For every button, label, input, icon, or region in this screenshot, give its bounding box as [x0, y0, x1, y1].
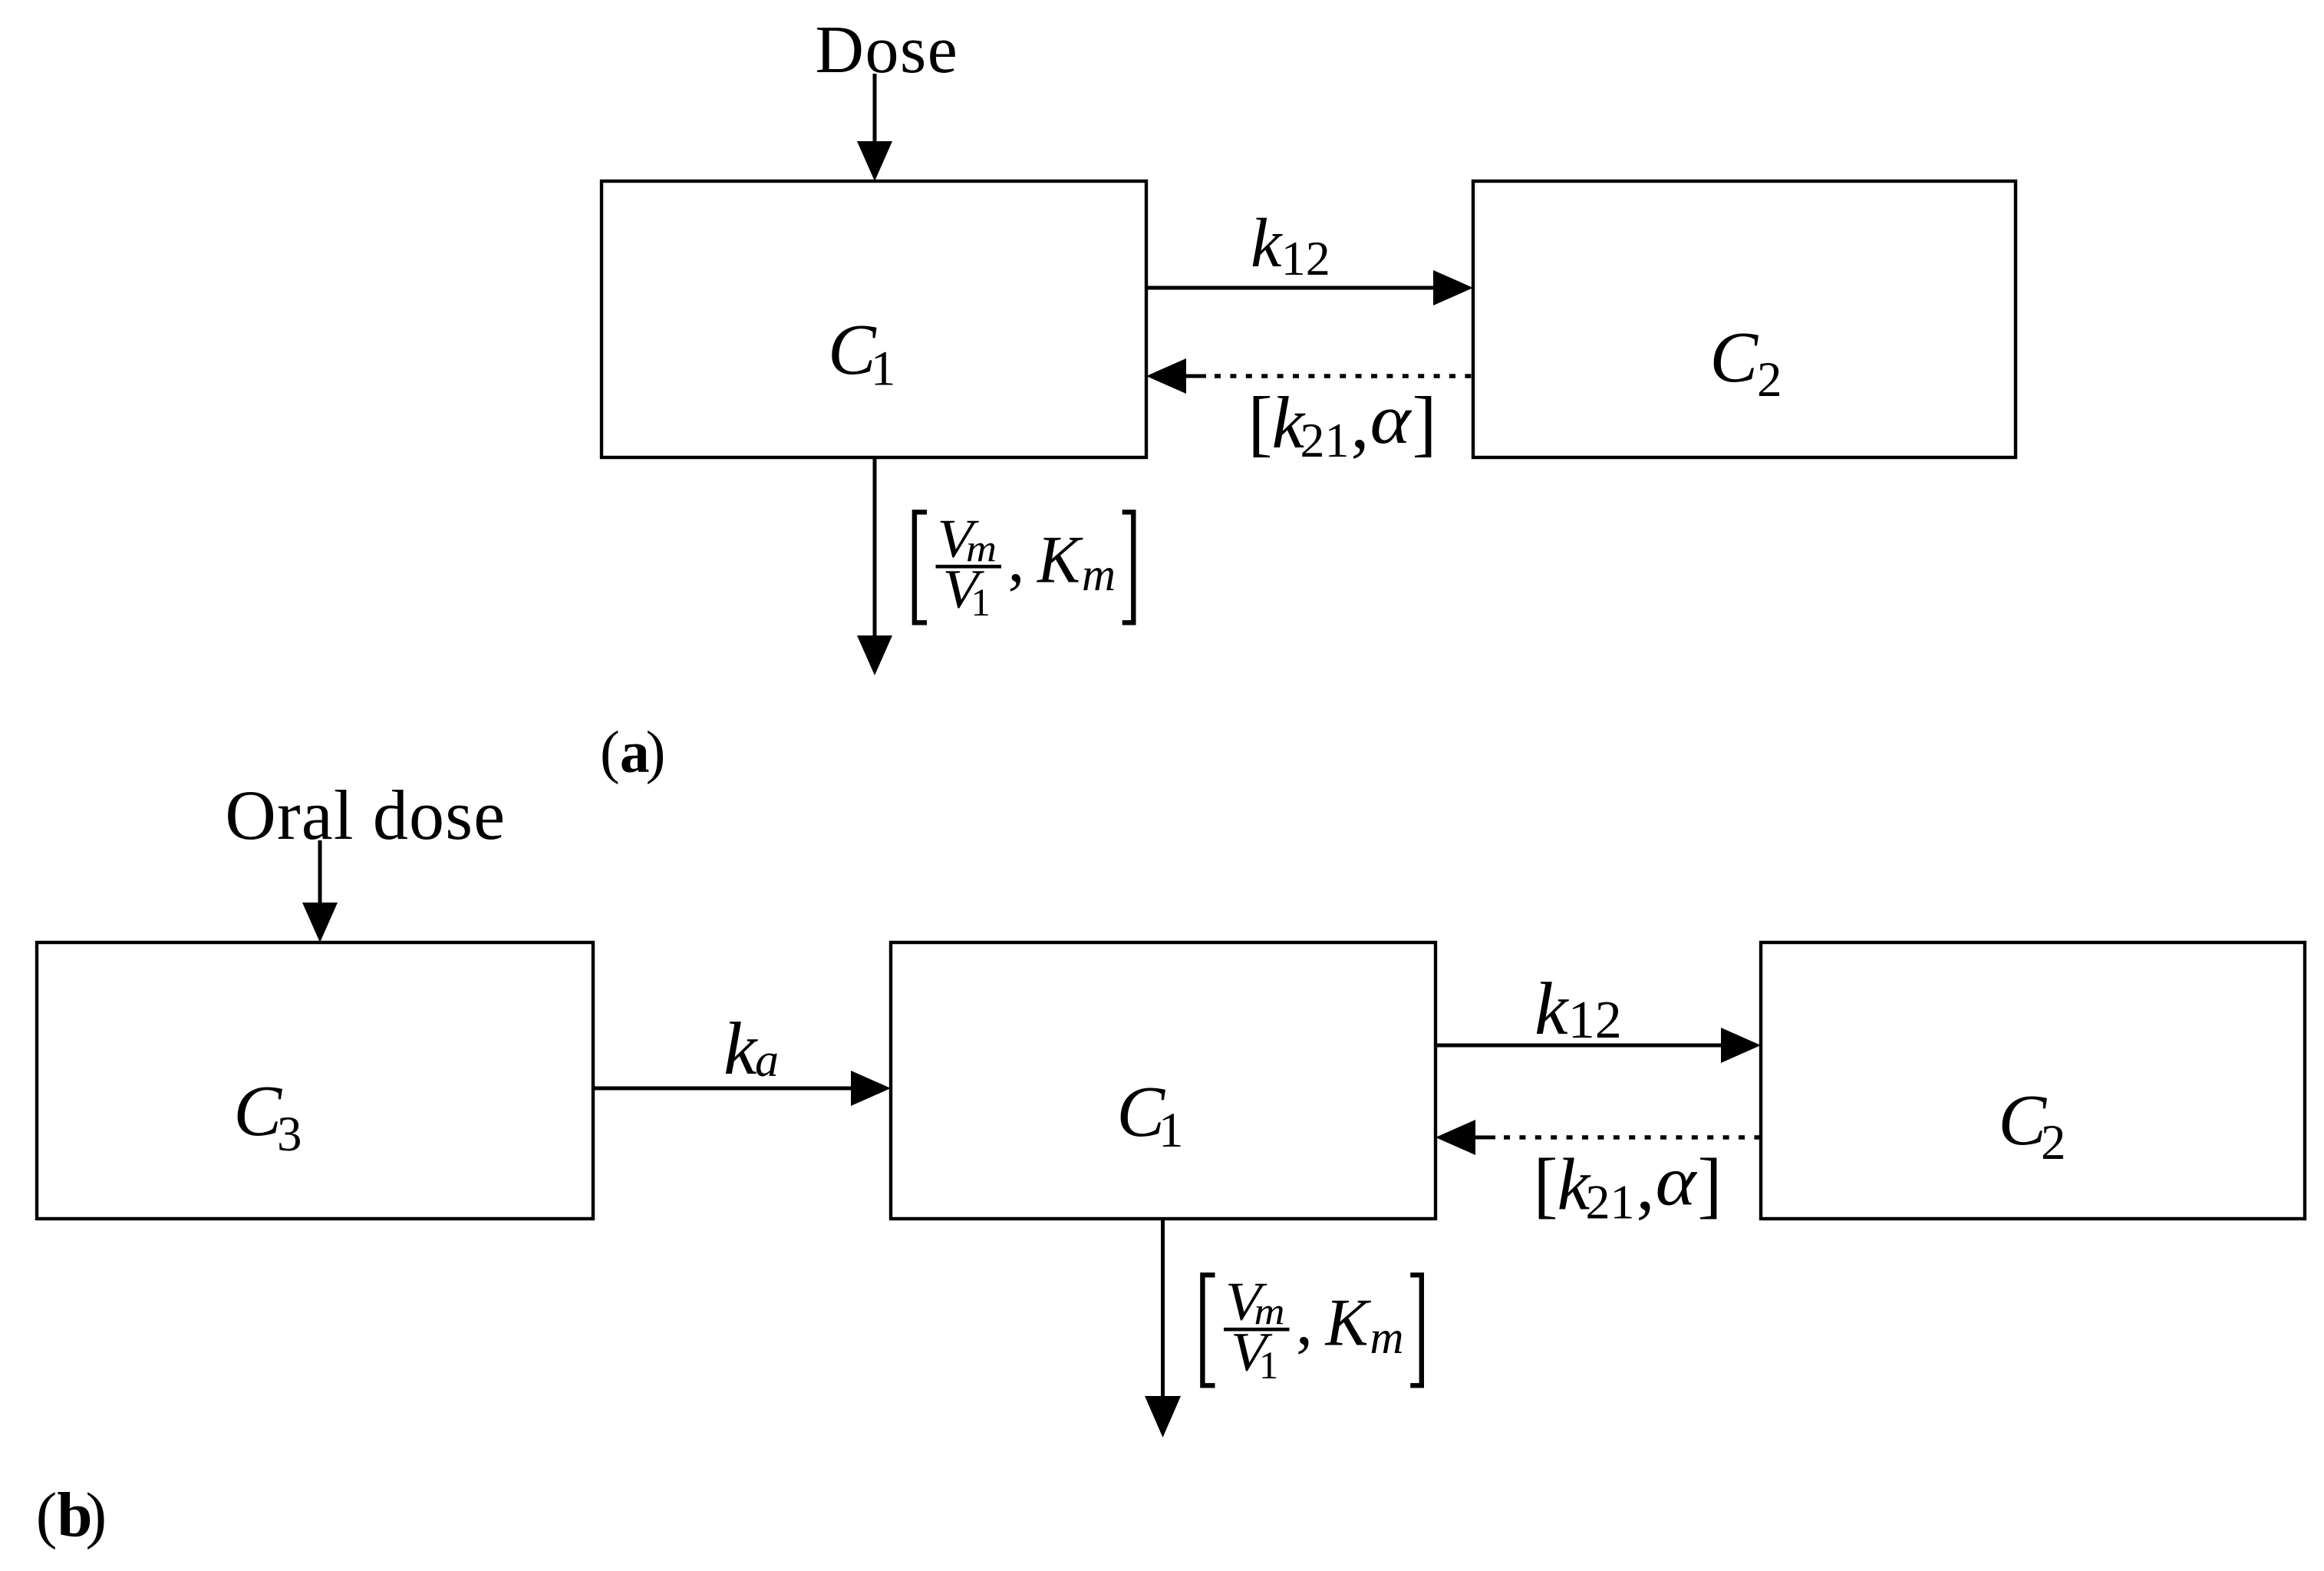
- arrowhead elimination (b): [1145, 1396, 1181, 1437]
- svg-text:C: C: [1998, 1081, 2047, 1160]
- label ka (b): [724, 1008, 779, 1091]
- svg-text:C: C: [1709, 318, 1759, 398]
- arrowhead oral dose into C3: [302, 903, 338, 942]
- node label C2 (b): [1998, 1081, 2065, 1170]
- compartment box C1 (a): [602, 181, 1146, 457]
- label Dose: [815, 13, 958, 87]
- compartment box C2 (a): [1473, 181, 2016, 457]
- svg-text:2: 2: [2041, 1115, 2066, 1170]
- svg-text:C: C: [828, 310, 877, 390]
- label [k21, alpha] (a): [1248, 380, 1437, 467]
- svg-text:(b): (b): [36, 1479, 107, 1550]
- wire k12 arrow (b): [1436, 1044, 1725, 1048]
- label [Vm/V1, Km] (b): [1202, 1272, 1421, 1388]
- node label C2 (a): [1709, 318, 1782, 408]
- svg-text:(a): (a): [600, 719, 665, 785]
- compartment box C1 (b): [891, 942, 1436, 1219]
- label k12 (a): [1251, 204, 1330, 285]
- wire dose arrow shaft: [873, 74, 877, 146]
- dotted wire k21 return (b): [1475, 1136, 1759, 1140]
- wire k12 arrow (a): [1146, 286, 1437, 290]
- caption (b): [36, 1479, 107, 1550]
- node label C1 (a): [828, 310, 895, 396]
- caption (a): [600, 719, 665, 785]
- arrowhead ka into C1 (b): [851, 1071, 891, 1106]
- svg-text:a: a: [755, 1035, 779, 1087]
- wire oral dose arrow shaft: [318, 840, 322, 907]
- node label C3 (b): [233, 1071, 302, 1162]
- svg-text:12: 12: [1281, 231, 1330, 285]
- wire ka arrow (b): [593, 1087, 855, 1091]
- arrowhead elimination (a): [857, 635, 892, 675]
- arrowhead k12 (a): [1433, 270, 1473, 305]
- svg-text:12: 12: [1568, 991, 1622, 1050]
- dotted wire k21 return (a): [1186, 375, 1472, 378]
- svg-text:Oral dose: Oral dose: [225, 776, 506, 854]
- wire elimination arrow (b): [1161, 1219, 1165, 1401]
- svg-text:k: k: [724, 1008, 758, 1091]
- svg-text:2: 2: [1757, 352, 1782, 408]
- compartment box C3 (b): [37, 942, 593, 1219]
- label Oral dose: [225, 776, 506, 854]
- arrowhead dose into C1: [857, 141, 892, 181]
- svg-text:C: C: [233, 1071, 282, 1151]
- label k12 (b): [1534, 968, 1622, 1051]
- wire elimination arrow (a): [873, 457, 877, 637]
- node label C1 (b): [1116, 1072, 1183, 1158]
- svg-text:1: 1: [871, 341, 896, 396]
- label [k21, alpha] (b): [1534, 1142, 1722, 1229]
- svg-text:Dose: Dose: [815, 13, 958, 87]
- arrowhead k12 (b): [1721, 1028, 1761, 1063]
- svg-text:k: k: [1534, 968, 1569, 1051]
- compartment box C2 (b): [1761, 942, 2305, 1219]
- arrowhead k21 into C1 (a): [1146, 358, 1186, 394]
- svg-text:1: 1: [1159, 1103, 1184, 1158]
- arrowhead k21 into C1 (b): [1436, 1120, 1475, 1155]
- svg-text:3: 3: [277, 1107, 302, 1162]
- label [Vm/V1, Km] (a): [915, 510, 1133, 625]
- svg-text:k: k: [1251, 204, 1283, 282]
